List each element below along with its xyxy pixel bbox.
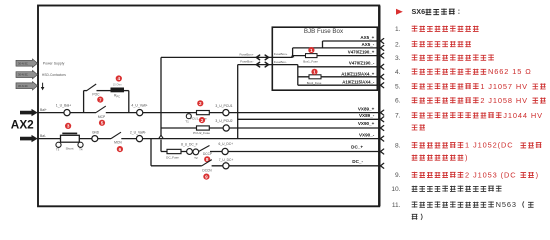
svg-text:AX5_-: AX5_- [362, 42, 375, 47]
vertical rail A (positive feed, x=161) with hop over Bal- [159, 57, 163, 151]
parts list item 10. [391, 186, 501, 194]
svg-text:V470/Z190_-: V470/Z190_- [349, 61, 375, 66]
parts list item 1. [395, 26, 479, 34]
svg-text:2: 2 [199, 101, 202, 106]
svg-text:4.: 4. [395, 69, 401, 76]
label VX90+ port [358, 121, 375, 126]
red pointer triangle [396, 9, 403, 15]
svg-text:10.: 10. [391, 186, 400, 193]
svg-text:2 J1058 HV: 2 J1058 HV [480, 96, 528, 105]
wire DC+ row [161, 151, 380, 153]
svg-text:GND: GND [92, 130, 100, 134]
svg-text:DC_Fuse: DC_Fuse [166, 155, 179, 159]
svg-text:30-N-3C: 30-N-3C [18, 73, 28, 77]
svg-text:4_U_Valt+: 4_U_Valt+ [131, 104, 147, 108]
svg-text:VX90_+: VX90_+ [358, 121, 375, 126]
label A19/Z115/AX4- port [342, 80, 375, 85]
svg-text:FuseBox-: FuseBox- [274, 60, 287, 64]
svg-text:3.: 3. [395, 55, 401, 62]
connector chevrons at right edge [381, 39, 384, 169]
label A19/Z115/AX4+ port [341, 71, 375, 76]
wire Bal+ rail / VX89+ row [38, 112, 380, 114]
badge 1a [308, 47, 314, 53]
parts list item 4. [395, 67, 532, 76]
wire AX5+ branch [323, 41, 378, 48]
svg-text:FuseBox-: FuseBox- [240, 60, 253, 64]
fuse Box1_Fuse (1) [303, 54, 318, 64]
label Bal- [40, 134, 46, 138]
badge 8 [204, 156, 210, 162]
svg-text:2.: 2. [395, 41, 401, 48]
parts list item 9. [395, 170, 539, 179]
parts list item 6. [395, 96, 546, 105]
label MCN [114, 141, 122, 145]
gray arrow flag 3 [16, 82, 38, 90]
label AX2 connector [11, 118, 34, 132]
wire VX89- row [238, 118, 381, 120]
fuse DC_Fuse [166, 149, 181, 159]
label V470/Z190- port [349, 61, 375, 66]
svg-text:Shunt: Shunt [66, 146, 74, 150]
svg-text:9: 9 [205, 174, 208, 179]
wire A19+ row [298, 76, 378, 78]
svg-text:1: 1 [310, 48, 313, 53]
contactor MCN (6) blade [111, 132, 121, 138]
svg-text:6_U_DC+: 6_U_DC+ [219, 142, 234, 146]
node 2_U_VaW [130, 130, 146, 141]
svg-text:5: 5 [101, 120, 104, 125]
badge 5 [99, 120, 105, 126]
svg-text:J1044 HV: J1044 HV [503, 111, 543, 120]
node 7_U_DC+ [219, 158, 234, 169]
svg-text:Box1_Fuse: Box1_Fuse [303, 60, 318, 64]
label AX5+ port [360, 35, 374, 40]
node 1_U_Bal+ [56, 104, 71, 116]
contactor MCP (5) blade [96, 106, 106, 113]
svg-text:): ) [465, 153, 468, 162]
svg-text:MCP: MCP [98, 115, 106, 119]
gray arrow flag 2 [16, 70, 38, 78]
label DCCN [202, 169, 212, 173]
svg-text:VX89_+: VX89_+ [358, 106, 375, 111]
svg-text:A19/Z115/AX4_-: A19/Z115/AX4_- [342, 80, 375, 85]
svg-text:DC_-: DC_- [352, 159, 363, 164]
gray arrow flag 1 [16, 59, 38, 67]
node 3_U_PCU2 [215, 119, 232, 131]
svg-text:7_U_DC+: 7_U_DC+ [219, 158, 234, 162]
vertical rail B (negative to DC-, x=151) [150, 139, 152, 166]
label FuseBox- (inside) [274, 60, 287, 64]
annotation HSD-Contactors [42, 73, 66, 77]
svg-text:): ) [536, 170, 539, 179]
label V470/Z190+ port [348, 50, 375, 55]
node 6_U_DC+ [219, 142, 234, 155]
label AX5- port [362, 42, 375, 47]
parts list item 2. [395, 41, 471, 49]
node 8_U_DC_F [181, 142, 198, 154]
connector pair FuseBox- [256, 62, 268, 67]
svg-text:2_U_VaW-: 2_U_VaW- [130, 130, 146, 134]
badge 3 [65, 123, 71, 129]
svg-text:Power Supply: Power Supply [43, 62, 65, 66]
fuse PCU2_Fuse (2) [193, 126, 210, 135]
svg-text:5.: 5. [395, 84, 401, 91]
parts list item 11. [392, 200, 534, 220]
label DC+ port [351, 145, 363, 150]
svg-text:VX89_-: VX89_- [359, 113, 375, 118]
resistor R_PC (4) [111, 84, 125, 99]
svg-text:2: 2 [201, 118, 204, 123]
svg-text:1: 1 [313, 69, 316, 74]
riser N [297, 65, 299, 86]
node T2 [193, 149, 199, 160]
svg-text:N563: N563 [496, 200, 517, 209]
svg-text:V470/Z190_+: V470/Z190_+ [348, 50, 375, 55]
svg-text:VX90_-: VX90_- [359, 133, 375, 138]
fuse Box2_Fuse (1) [307, 75, 322, 85]
svg-text:30-N-3C: 30-N-3C [18, 61, 28, 65]
input arrow Bal+ [20, 109, 38, 116]
svg-text:1_U_Bal+: 1_U_Bal+ [56, 104, 71, 108]
svg-text:8.: 8. [395, 143, 401, 150]
svg-text:A19/Z115/AX4_+: A19/Z115/AX4_+ [341, 71, 375, 76]
svg-text:MCN: MCN [114, 141, 122, 145]
label DCCP [203, 152, 212, 156]
badge 7 [97, 97, 103, 103]
svg-text:BJB Fuse Box: BJB Fuse Box [304, 28, 344, 35]
wire A19- row [298, 84, 378, 86]
svg-text:T1: T1 [185, 119, 189, 123]
wire V470+ row [272, 56, 377, 58]
svg-text:Bal+: Bal+ [40, 108, 47, 112]
contactor DCCP (8) blade [199, 146, 210, 152]
label FuseBox+ (outside) [239, 52, 253, 56]
svg-text:FuseBox+: FuseBox+ [239, 52, 253, 56]
label DC- port [352, 159, 363, 164]
badge 6 [117, 146, 123, 152]
badge 2a [197, 100, 203, 106]
svg-text:11.: 11. [392, 202, 401, 209]
label MCP [98, 115, 106, 119]
wire precharge branch [84, 91, 129, 113]
wire FuseBox+ [161, 56, 272, 58]
parts list item 7. [395, 111, 543, 131]
badge 1b [311, 69, 317, 75]
svg-text:PCU2_Fuse: PCU2_Fuse [193, 131, 210, 135]
parts list item 3. [395, 54, 494, 62]
contactor POC (7) blade [87, 84, 96, 91]
node 3_U_PCU1 [215, 104, 232, 116]
parts list item 8. [395, 141, 541, 162]
svg-text:6.: 6. [395, 98, 401, 105]
svg-text:T3: T3 [56, 147, 60, 151]
svg-text:HSD-Contactors: HSD-Contactors [42, 73, 66, 77]
down arrow annotation [41, 83, 45, 91]
svg-text:7: 7 [99, 97, 102, 102]
svg-text:AX2: AX2 [11, 118, 34, 132]
svg-text:3_U_PCU1: 3_U_PCU1 [215, 104, 232, 108]
wire PCU2 row / VX90+ row [161, 127, 380, 129]
input arrow Bal- [20, 135, 38, 142]
label VX89- port [359, 113, 375, 118]
parts list item 5. [395, 82, 546, 91]
svg-text:SX6: SX6 [412, 7, 426, 16]
svg-text:1 J1057 HV: 1 J1057 HV [480, 82, 528, 91]
shunt sensor (3) [56, 133, 83, 151]
svg-text:DC_+: DC_+ [351, 145, 363, 150]
svg-text:1.: 1. [395, 26, 401, 33]
node 4_U_Valt+ [131, 104, 147, 116]
node GND [92, 130, 100, 141]
fuse PCU1_Fuse (2) [190, 111, 209, 121]
svg-text:9.: 9. [395, 172, 401, 179]
svg-text:6: 6 [119, 147, 122, 152]
svg-text:15 Ohm: 15 Ohm [113, 84, 122, 87]
label FuseBox- (outside) [240, 60, 253, 64]
wire AX5- row [293, 47, 378, 49]
connector pair FuseBox+ [256, 55, 268, 60]
wire V470- row [298, 66, 378, 68]
svg-text:T2: T2 [194, 156, 198, 160]
label FuseBox+ (inside) [274, 52, 288, 56]
vertical rail C (FuseBox- feed, x=237.7) [237, 65, 239, 139]
svg-text:T4: T4 [79, 147, 83, 151]
svg-text:DCCN: DCCN [202, 169, 212, 173]
panel header SX6 [412, 7, 460, 16]
node T1 [185, 114, 191, 124]
wire FuseBox- [238, 64, 298, 66]
contactor DCCN (9) blade [202, 160, 212, 166]
svg-text:AX5_+: AX5_+ [360, 35, 374, 40]
svg-text:FuseBox+: FuseBox+ [274, 52, 288, 56]
svg-text:8_U_DC_F: 8_U_DC_F [181, 142, 198, 146]
badge 2b [199, 117, 205, 123]
svg-text:4: 4 [118, 76, 121, 81]
svg-text:1 J1052(DC: 1 J1052(DC [465, 141, 513, 150]
label Bal+ [40, 108, 47, 112]
badge 9 [203, 174, 209, 180]
label VX90- port [359, 133, 375, 138]
outer box SX6 battery boundary [38, 6, 379, 207]
label VX89+ port [358, 106, 375, 111]
wire Bal- rail / VX90- row [38, 138, 380, 140]
svg-text:Bal-: Bal- [40, 134, 46, 138]
annotation Power Supply [43, 62, 65, 66]
svg-text:3: 3 [67, 124, 70, 129]
svg-text:7.: 7. [395, 113, 401, 120]
riser P with up arrow [291, 48, 294, 58]
svg-text:POC: POC [92, 92, 100, 96]
label POC [92, 92, 100, 96]
wire DC- row [151, 165, 380, 167]
badge 4 [116, 75, 122, 81]
BJB Fuse Box enclosure [272, 27, 377, 90]
svg-text:3_U_PCU2: 3_U_PCU2 [215, 119, 232, 123]
svg-text:2 J1053 (DC: 2 J1053 (DC [465, 170, 516, 179]
svg-text:N662 15 Ω: N662 15 Ω [488, 67, 532, 76]
svg-text:DCCP: DCCP [203, 152, 212, 156]
svg-text:30-N-3C: 30-N-3C [18, 84, 28, 88]
